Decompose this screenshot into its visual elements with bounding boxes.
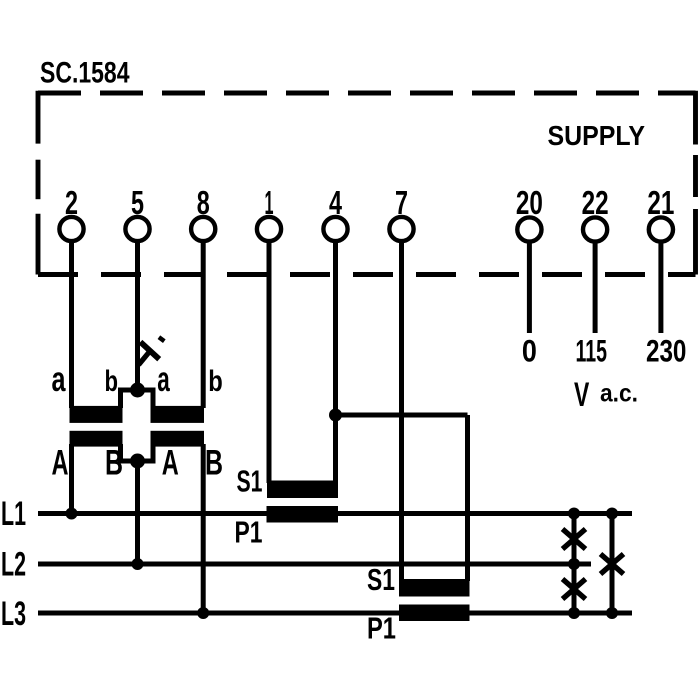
voltage selection link column 2 (wire) <box>610 514 615 614</box>
node link column 2 / L3 <box>606 607 618 619</box>
svg-text:L3: L3 <box>1 595 26 633</box>
current transformer CT1 secondary bar S1 <box>267 481 338 499</box>
voltage selection link column 1 (wire) <box>572 514 577 614</box>
svg-text:a.c.: a.c. <box>600 380 638 408</box>
terminal 1 <box>257 184 281 241</box>
current transformer CT2 secondary bar S1 <box>399 579 470 597</box>
wire top staple to transformer inner ends <box>121 390 154 408</box>
wire terminal 1 down to CT1 S1 <box>267 240 272 483</box>
wire bottom staple from transformer inner ends <box>121 444 154 461</box>
X link mark column 1 lower <box>563 579 586 599</box>
wire transformer T1 down to L1 <box>69 444 74 514</box>
terminal 22 <box>582 184 609 242</box>
svg-text:a: a <box>52 360 66 399</box>
wire transformer T2 down to L3 <box>201 444 206 613</box>
svg-text:5: 5 <box>131 184 144 221</box>
svg-text:L2: L2 <box>1 546 26 584</box>
svg-text:b: b <box>105 365 119 398</box>
transformer T1 lower winding bar (A) <box>70 431 123 447</box>
svg-text:SC.1584: SC.1584 <box>40 57 130 90</box>
svg-text:115: 115 <box>575 333 607 369</box>
disconnect link symbol on wire 5 <box>139 337 165 365</box>
X link mark column 2 middle <box>601 554 624 574</box>
svg-text:P1: P1 <box>367 611 396 646</box>
node link column 1 / L1 <box>568 508 580 520</box>
node: wire 5 / top staple junction <box>130 383 145 398</box>
svg-text:B: B <box>105 444 123 483</box>
wire terminal 2 down to transformer T1 <box>69 240 74 408</box>
wire terminal 20 stub <box>527 241 532 333</box>
node link column 1 / L2 <box>568 558 580 570</box>
current transformer CT2 primary bar P1 <box>399 605 470 622</box>
transformer T2 lower winding bar (B) <box>151 431 205 447</box>
terminal 7 <box>389 184 413 241</box>
X link mark column 1 upper <box>563 529 586 549</box>
wire terminal 4 down to CT1 S1 <box>333 240 338 483</box>
wire terminal 7 down to CT2 S1 <box>399 240 404 581</box>
wire terminal 22 stub <box>593 241 598 333</box>
terminal 5 <box>125 184 149 241</box>
wire node down to L2 <box>135 461 140 564</box>
terminal 20 <box>516 184 543 242</box>
line L3 <box>38 611 632 616</box>
svg-text:a: a <box>157 360 170 399</box>
svg-text:S1: S1 <box>367 562 395 597</box>
svg-text:1: 1 <box>265 184 274 221</box>
line L2 <box>38 562 591 567</box>
node L1/wire2 junction <box>66 508 78 520</box>
node L2/wire5 junction <box>132 558 144 570</box>
svg-text:230: 230 <box>646 333 687 369</box>
svg-text:20: 20 <box>516 184 543 221</box>
label V a.c. <box>574 376 638 414</box>
node L3/wire8 junction <box>197 607 209 619</box>
node: tap on wire 4 <box>329 409 342 422</box>
node: wire 5 / bottom staple junction <box>130 454 145 469</box>
node link column 2 / L1 <box>606 508 618 520</box>
svg-text:A: A <box>52 444 69 483</box>
node link column 1 / L3 <box>568 607 580 619</box>
wire tap horizontal to CT2 branch <box>336 413 468 418</box>
terminal 4 <box>323 184 347 241</box>
svg-text:22: 22 <box>582 184 609 221</box>
svg-text:V: V <box>574 376 590 414</box>
wire tap branch down to CT2 S1 <box>465 415 470 581</box>
terminal 2 <box>59 184 83 241</box>
transformer T1 upper winding bar (a) <box>70 406 123 423</box>
svg-text:A: A <box>162 444 179 483</box>
enclosure dashed outline: top edge <box>38 91 696 96</box>
enclosure dashed outline: left edge <box>36 91 41 275</box>
enclosure dashed outline: bottom edge <box>38 272 696 277</box>
svg-text:B: B <box>205 444 223 483</box>
svg-text:2: 2 <box>65 184 78 221</box>
wire terminal 21 stub <box>658 241 663 333</box>
svg-text:S1: S1 <box>237 464 263 499</box>
svg-text:b: b <box>208 365 223 398</box>
svg-text:8: 8 <box>197 184 210 221</box>
svg-text:0: 0 <box>522 333 537 369</box>
svg-text:L1: L1 <box>1 495 26 533</box>
line L1 <box>38 511 632 516</box>
svg-text:4: 4 <box>329 184 342 221</box>
svg-text:21: 21 <box>647 184 674 221</box>
terminal 8 <box>191 184 215 241</box>
svg-text:P1: P1 <box>235 515 263 550</box>
terminal 21 <box>647 184 674 242</box>
wire terminal 8 down to transformer T2 <box>201 240 206 408</box>
wire terminal 5 down to node <box>135 240 140 390</box>
svg-text:7: 7 <box>395 184 408 221</box>
transformer T2 upper winding bar (a) <box>151 406 205 423</box>
svg-text:SUPPLY: SUPPLY <box>548 120 646 151</box>
current transformer CT1 primary bar P1 <box>267 506 339 523</box>
enclosure dashed outline: right edge <box>693 91 698 275</box>
